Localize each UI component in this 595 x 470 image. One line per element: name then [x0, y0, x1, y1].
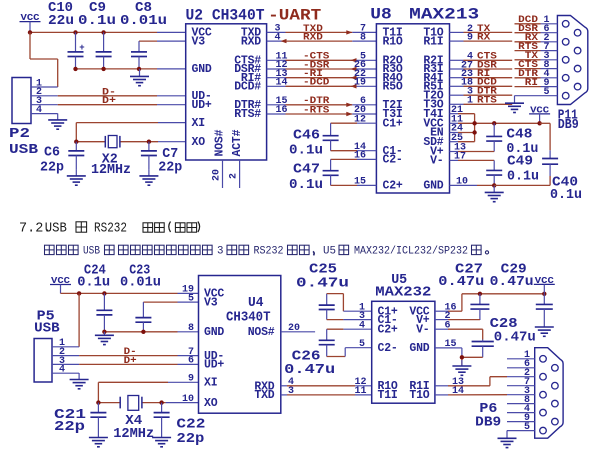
svg-text:15: 15	[445, 339, 457, 350]
wire U8.2 net TX	[450, 24, 513, 35]
node XI/XO junctions bottom	[96, 400, 164, 404]
capacitor C24 (0.1u)	[96, 293, 112, 331]
svg-text:C1+: C1+	[383, 117, 403, 130]
svg-text:0.1u: 0.1u	[289, 142, 323, 158]
svg-text:0.47u: 0.47u	[494, 330, 536, 346]
label C48 0.1u	[506, 127, 538, 157]
svg-text:16: 16	[275, 105, 287, 116]
wire D- net P2.2 to U2.7	[58, 95, 186, 97]
svg-text:XI: XI	[204, 377, 218, 390]
svg-text:C22: C22	[176, 416, 205, 432]
label C46 0.1u	[289, 127, 323, 158]
svg-text:C47: C47	[293, 162, 320, 178]
node VCC rail junctions bottom-right	[478, 292, 547, 296]
svg-text:2: 2	[229, 173, 240, 179]
svg-text:-DCD: -DCD	[303, 78, 329, 89]
wire net -RI U2.13 to U8.22	[267, 69, 377, 80]
wire C46 to U8.14 C1-	[331, 142, 377, 153]
svg-text:0.1u: 0.1u	[78, 13, 116, 29]
op IC U8 MAX213	[376, 24, 449, 193]
wire net -RTS U2.16 to U8.20	[267, 105, 377, 116]
svg-text:9: 9	[467, 33, 473, 44]
wire U5.15 GND	[435, 339, 462, 366]
capacitor C6 (22p)	[68, 142, 84, 170]
svg-text:0.47u: 0.47u	[284, 362, 335, 378]
wire U8.4 net CTS	[450, 52, 513, 63]
label U5 MAX232	[375, 272, 431, 300]
wire P6 pin 4	[507, 404, 535, 415]
svg-text:USB: USB	[83, 245, 100, 257]
svg-text:C46: C46	[293, 127, 320, 143]
svg-text:12MHz: 12MHz	[113, 426, 154, 442]
svg-text:-UART: -UART	[268, 7, 321, 25]
svg-text:0.47u: 0.47u	[296, 276, 349, 292]
wire XO net / crystal leads bottom	[98, 402, 198, 404]
label C25 0.47u	[296, 262, 349, 292]
wire GND rail to U4 pin 8	[104, 331, 198, 333]
op IC U2 CH340T	[186, 24, 267, 160]
connector P11 DB9 shape	[557, 16, 587, 105]
svg-text:14: 14	[275, 78, 287, 89]
svg-text:XI: XI	[192, 117, 206, 130]
svg-text:UD+: UD+	[192, 99, 212, 112]
svg-text:U5: U5	[323, 245, 336, 257]
pin ACT# 2 below U2	[229, 160, 240, 188]
capacitor C29 (0.47u)	[536, 294, 553, 320]
wire U8.3 net DTR	[450, 87, 513, 98]
svg-text:P2: P2	[9, 126, 30, 142]
svg-text:19: 19	[354, 78, 366, 89]
node GND-rail junctions	[73, 67, 141, 71]
ground (P6 pin 5)	[498, 431, 517, 448]
wire GND rail to U2 pin 8	[76, 68, 187, 70]
wire P6 pin 2	[507, 368, 535, 379]
label C7 22p	[158, 146, 182, 176]
svg-text:5: 5	[359, 339, 365, 350]
wire VCC rail bottom-right	[462, 293, 544, 295]
pin numbers U4 left	[182, 285, 194, 405]
wire U4 pin5 V3 to C23	[143, 301, 198, 303]
node VCC junctions right	[492, 121, 542, 125]
label C27 C29 values	[438, 262, 533, 291]
capacitor C26 (0.47u) loop	[319, 329, 372, 356]
wire P11 pin 2 net RX	[515, 33, 558, 44]
op IC U4 CH340T	[199, 276, 281, 414]
svg-text:0.01u: 0.01u	[120, 13, 167, 29]
svg-text:0.1u: 0.1u	[289, 177, 323, 193]
svg-text:GND: GND	[192, 63, 212, 76]
wire P6 pin 1	[507, 350, 535, 361]
crystal X2 12MHz	[105, 136, 120, 148]
label U4 CH340T	[226, 295, 271, 326]
svg-text:0.1u: 0.1u	[550, 187, 582, 203]
wire U4.20 NOS#	[281, 323, 315, 334]
svg-text:DB9: DB9	[475, 415, 501, 431]
capacitor C48 (0.1u)	[486, 123, 502, 151]
wire P6 pin 5	[507, 422, 535, 433]
crystal X4 12MHz	[120, 396, 142, 411]
ground (below C7)	[139, 169, 158, 185]
svg-text:15: 15	[354, 177, 366, 188]
svg-text:RS232: RS232	[94, 222, 127, 237]
svg-text:CH340T: CH340T	[226, 310, 271, 326]
capacitor C27 (0.47u)	[470, 294, 489, 320]
wire U8.21 T4I to VCC chain	[450, 105, 475, 142]
label C21 22p	[54, 407, 86, 435]
svg-text:10: 10	[182, 394, 194, 405]
capacitor C7 (22p)	[141, 142, 157, 170]
svg-text:C2+: C2+	[383, 180, 403, 193]
label X2 12MHz	[91, 151, 131, 178]
svg-text:16: 16	[354, 151, 366, 162]
wire U5.1 C1+	[343, 302, 371, 313]
connector P5 USB	[34, 338, 79, 382]
capacitor C22 (22p)	[154, 403, 170, 431]
wire P11 pin 6 net DSR	[515, 24, 558, 35]
svg-text:20: 20	[288, 323, 300, 334]
wire P11 pin 3 net TX	[515, 51, 558, 62]
capacitor C8 (0.01u)	[131, 41, 147, 69]
svg-text:C2-: C2-	[378, 342, 398, 355]
wire C47 to U8.15 C2+	[331, 177, 377, 188]
power symbol VCC (bottom-right)	[534, 276, 555, 294]
svg-text:C6: C6	[44, 145, 60, 161]
svg-text:22p: 22p	[176, 431, 204, 447]
wire U4.3 TXD to U5.11	[281, 386, 372, 397]
svg-text:T1O: T1O	[409, 389, 429, 402]
svg-text:RX: RX	[477, 33, 490, 44]
svg-text:+: +	[79, 43, 84, 53]
connector P6 DB9 shape	[535, 348, 563, 439]
svg-text:GND: GND	[409, 342, 429, 355]
wire net RXD U2.4 to U8.8	[267, 32, 377, 43]
capacitor C46 (0.1u)	[323, 123, 339, 145]
capacitor C9 (0.1u)	[96, 32, 112, 69]
label C22 22p	[176, 416, 205, 447]
wire P11 pin 9 net RI	[515, 78, 558, 89]
label C40 0.1u	[550, 175, 582, 204]
capacitor C21 (22p)	[90, 403, 106, 431]
ground (U5 GND)	[452, 360, 471, 375]
capacitor C47 (0.1u)	[323, 159, 339, 180]
svg-text:MAX232: MAX232	[375, 284, 431, 300]
svg-text:14: 14	[452, 386, 464, 397]
svg-text:R5O: R5O	[383, 81, 403, 94]
svg-text:9: 9	[188, 374, 194, 385]
pin NOS# 20 below U2	[212, 160, 223, 188]
svg-text:0.01u: 0.01u	[120, 275, 161, 291]
svg-text:GND: GND	[423, 180, 443, 193]
svg-text:USB: USB	[9, 142, 39, 158]
label C49 0.1u	[507, 154, 539, 185]
svg-text:NOS#: NOS#	[248, 326, 275, 339]
capacitor C10 (22u polarized)	[68, 32, 85, 69]
svg-text:D+: D+	[102, 96, 116, 107]
wire U8.9 net RX	[450, 33, 513, 44]
pin numbers U5 4 5	[359, 320, 365, 350]
label P5 USB	[34, 309, 60, 337]
wire U8.10 GND	[450, 177, 495, 188]
wire U5.6 V- to C28	[435, 320, 483, 339]
svg-text:U2 CH340T: U2 CH340T	[186, 7, 265, 25]
wire VCC drop to P5 pin 1	[78, 293, 80, 346]
wire U8.23 net RI	[450, 69, 513, 80]
svg-text:R1O: R1O	[383, 35, 403, 48]
svg-text:8: 8	[360, 32, 366, 43]
wire U8.27 net DSR	[450, 60, 513, 71]
wire XO net / crystal leads	[76, 141, 186, 143]
ground (below U8)	[485, 185, 504, 201]
wire net -DSR U2.12 to U8.26	[267, 60, 377, 71]
svg-text:ACT#: ACT#	[231, 129, 244, 156]
node EN/SD junctions	[472, 121, 476, 135]
ground (below C6)	[67, 169, 86, 185]
label P11 DB9	[558, 108, 579, 134]
svg-text:C2-: C2-	[383, 154, 403, 167]
node GND junction	[492, 183, 496, 187]
svg-text:4: 4	[359, 320, 365, 331]
svg-text:V-: V-	[430, 155, 443, 168]
wire VCC drop to P2 pin 1	[30, 32, 58, 87]
node XI/XO junctions	[74, 140, 151, 144]
wire P6 pin 6	[507, 359, 535, 370]
ground (below C24)	[95, 332, 114, 345]
wire VCC rail to U2 pin 19	[30, 31, 186, 33]
svg-text:U8: U8	[370, 6, 392, 24]
svg-text:USB: USB	[45, 222, 67, 237]
svg-text:DCD#: DCD#	[234, 81, 261, 94]
capacitor C23 (0.01u)	[135, 302, 151, 332]
wire U2 pin9 XI	[76, 123, 186, 142]
ground (below C22)	[152, 431, 171, 447]
label C26 0.47u	[284, 349, 335, 379]
svg-text:RTS: RTS	[477, 96, 497, 107]
svg-text:RXD: RXD	[241, 35, 261, 48]
power symbol VCC (bottom-left)	[50, 276, 71, 293]
svg-text:MAX232/ICL232/SP232: MAX232/ICL232/SP232	[354, 245, 468, 257]
svg-text:0.47u: 0.47u	[490, 274, 534, 290]
wire VCC rail to U4 pin 19	[61, 292, 199, 294]
wire U2 pin5 V3 to C8	[139, 40, 186, 42]
svg-text:22p: 22p	[158, 160, 182, 176]
label C47 0.1u	[289, 162, 323, 193]
wire U5.2 V+ to C27	[435, 311, 480, 322]
paragraph description line	[45, 245, 489, 257]
capacitor C40 (0.1u) loop	[494, 123, 558, 185]
wire P6 pin 8	[507, 395, 535, 406]
wire net -DCD U2.14 to U8.19	[267, 78, 377, 89]
label U8 MAX213	[370, 6, 479, 24]
svg-text:0.1u: 0.1u	[507, 168, 539, 184]
ground (below C21)	[89, 431, 108, 447]
svg-text:C49: C49	[507, 154, 533, 170]
svg-text:MAX213: MAX213	[409, 6, 479, 24]
svg-text:C2+: C2+	[378, 323, 398, 336]
wire U4 pin9 XI bottom	[98, 382, 198, 402]
ground (P2 pin 4)	[48, 114, 67, 130]
wire net -DTR U2.15 to U8.6	[267, 96, 377, 107]
wire U4.4 RXD to U5.12	[281, 377, 372, 388]
svg-text:T1I: T1I	[378, 389, 398, 402]
svg-text:XO: XO	[204, 397, 218, 410]
svg-text:RTS#: RTS#	[234, 108, 261, 121]
wire P11 pin 7 net RTS	[515, 42, 558, 53]
label C10 C9 C8 values	[48, 0, 167, 29]
svg-text:22p: 22p	[54, 419, 85, 435]
op IC U5 MAX232	[372, 301, 435, 403]
label C24 C23 values	[77, 263, 161, 291]
svg-text:USB: USB	[34, 321, 60, 337]
svg-text:4: 4	[59, 365, 65, 376]
heading 7.2 USB to RS232	[19, 222, 200, 237]
svg-text:22p: 22p	[40, 160, 64, 176]
svg-text:RI: RI	[525, 78, 538, 89]
wire U5.16 VCC to rail	[435, 294, 462, 314]
svg-text:XO: XO	[192, 136, 206, 149]
wire U8.16 C2- to C47	[331, 151, 377, 162]
wire U8.17 V- to C49	[450, 152, 495, 163]
capacitor C25 (0.47u) loop	[319, 294, 344, 320]
node VCC-rail junctions bottom	[77, 291, 107, 295]
node VCC-rail junctions	[28, 30, 106, 34]
wire U5.14 T1O to P6 pin3	[435, 386, 507, 397]
wire U8.18 net DCD	[450, 78, 513, 89]
svg-text:UD+: UD+	[204, 359, 224, 372]
ground (below C29)	[535, 320, 554, 336]
wire U8.1 net RTS	[450, 96, 513, 107]
label X4 12MHz	[113, 413, 154, 442]
svg-text:V3: V3	[192, 35, 206, 48]
wire P6 pin 9	[507, 413, 535, 424]
power symbol VCC (right of U8)	[529, 105, 550, 123]
wire P11 pin 8 net CTS	[515, 60, 558, 71]
ground (below C8 rail)	[130, 69, 149, 86]
svg-text:TXD: TXD	[254, 389, 274, 402]
svg-text:22u: 22u	[48, 13, 74, 29]
label U2 CH340T -UART	[186, 7, 322, 25]
wire U8.24 EN	[450, 124, 475, 135]
svg-text:RXD: RXD	[303, 33, 323, 44]
label C28 0.47u	[490, 316, 536, 346]
svg-text:NOS#: NOS#	[214, 129, 227, 156]
wire U8.12 C1+ to C46	[331, 114, 377, 125]
connector P2 USB	[12, 78, 58, 124]
label P6 DB9	[475, 401, 501, 431]
wire U5.3 C1-	[327, 311, 372, 322]
svg-text:8: 8	[188, 323, 194, 334]
svg-text:-RTS: -RTS	[303, 105, 329, 116]
svg-text:V-: V-	[416, 323, 429, 336]
wire U8.11 VCC rail	[450, 115, 540, 126]
ground (P11 pin 5)	[505, 96, 524, 113]
capacitor C28 (0.47u)	[462, 340, 494, 358]
svg-text:17: 17	[454, 152, 466, 163]
svg-text:D+: D+	[124, 356, 137, 367]
node GND junction bottom-right	[460, 355, 464, 359]
label P2 USB	[9, 126, 39, 158]
svg-text:4: 4	[274, 32, 280, 43]
svg-text:5: 5	[544, 87, 550, 98]
label C6 22p	[40, 145, 64, 176]
capacitor C49 (0.1u)	[486, 160, 502, 185]
wire P6 pin 7	[507, 377, 535, 388]
svg-text:3: 3	[217, 245, 223, 257]
svg-text:GND: GND	[204, 326, 224, 339]
svg-text:12: 12	[354, 114, 366, 125]
svg-text:DB9: DB9	[558, 117, 579, 133]
svg-text:0.47u: 0.47u	[438, 274, 484, 290]
svg-text:0.1u: 0.1u	[77, 275, 110, 291]
wire P11 pin 1 net DCD	[515, 15, 558, 26]
svg-text:1: 1	[467, 96, 473, 107]
svg-text:10: 10	[456, 177, 468, 188]
wire net TXD U2.3 to U8.7	[267, 24, 377, 35]
wire net -CTS U2.11 to U8.5	[267, 52, 377, 63]
wire D- net P5.2 to U4.7	[79, 355, 198, 357]
svg-text:12MHz: 12MHz	[91, 162, 131, 178]
wire D+ net P5.3 to U4.6	[79, 363, 198, 365]
svg-text:6: 6	[188, 356, 194, 367]
svg-text:V3: V3	[204, 296, 218, 309]
svg-text:20: 20	[212, 169, 223, 181]
wire P6 pin 3	[507, 386, 535, 397]
wire P11 pin 4 net DTR	[515, 69, 558, 80]
svg-text:3: 3	[288, 386, 294, 397]
wire U8.25 SD#	[450, 133, 475, 144]
svg-text:4: 4	[36, 105, 42, 116]
wire P11 pin 5	[515, 87, 558, 98]
svg-text:5: 5	[524, 422, 530, 433]
ground (P5 pin 4)	[70, 373, 89, 389]
wire D+ net P2.3 to U2.6	[58, 104, 186, 106]
power symbol VCC (top-left)	[20, 13, 41, 32]
svg-text:RS232: RS232	[254, 245, 284, 257]
wire U5.13 R1I to P6 pin2	[435, 377, 507, 388]
svg-text:6: 6	[445, 320, 451, 331]
wire C48 to U8.13 V+	[450, 143, 495, 154]
svg-text:5: 5	[188, 293, 194, 304]
svg-text:11: 11	[354, 386, 366, 397]
node GND-rail junctions bottom	[102, 330, 145, 334]
svg-text:R1I: R1I	[423, 35, 443, 48]
